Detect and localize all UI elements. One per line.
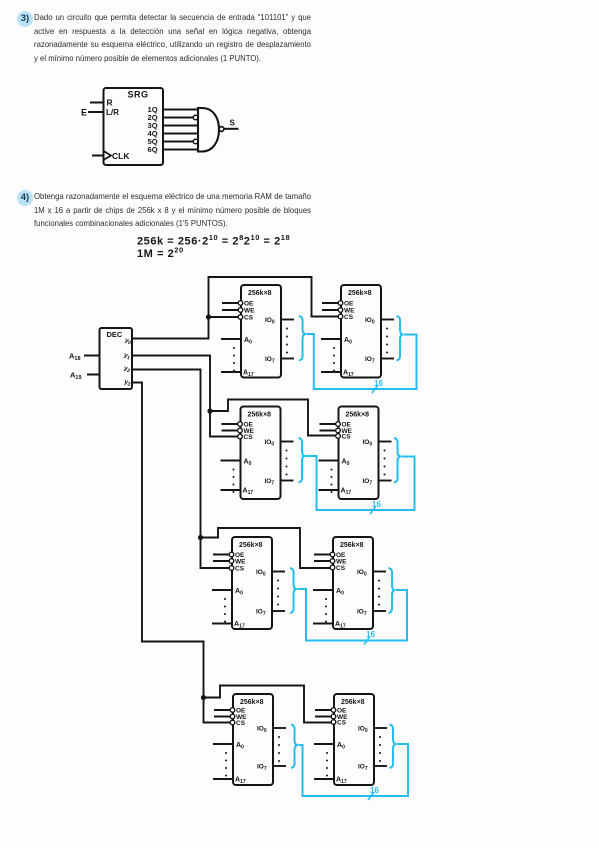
- wire U6 IO0: [373, 571, 386, 573]
- ellipsis dots U3 address pins: [233, 469, 235, 494]
- pin bubble U1 OE: [238, 301, 243, 306]
- svg-text:S: S: [230, 119, 236, 128]
- data brace row2 right (8 bits): [394, 438, 401, 483]
- pin label U7 IO0: [257, 726, 267, 735]
- RAM chip U6 256kx8: [333, 537, 373, 629]
- label A18: [69, 352, 81, 363]
- wire U5 A0 stub: [212, 589, 232, 591]
- RAM chip U2 256kx8: [341, 285, 381, 378]
- wire input A18: [84, 355, 100, 357]
- RAM chip U4 256kx8: [339, 407, 379, 500]
- pin label U8 A0: [337, 742, 345, 751]
- wire U3 IO0: [281, 441, 294, 443]
- pin bubble U3 WE: [238, 428, 243, 433]
- label SRG: [128, 90, 149, 100]
- RAM chip U7 256kx8: [233, 694, 273, 785]
- pin label U8 CS: [337, 720, 347, 727]
- data brace row4 left (8 bits): [291, 725, 298, 769]
- wire U1 A0 stub: [221, 338, 241, 340]
- svg-text:A0: A0: [236, 742, 244, 751]
- wire U4 A17 stub: [319, 489, 339, 491]
- wire U5 IO0: [272, 571, 285, 573]
- wire U3 IO7: [281, 480, 294, 482]
- svg-text:256k×8: 256k×8: [239, 542, 263, 549]
- problem 4 statement: [34, 190, 311, 231]
- svg-text:CLK: CLK: [112, 151, 130, 161]
- svg-text:A0: A0: [337, 742, 345, 751]
- wire U8 WE stub: [315, 716, 332, 718]
- wire U1 WE stub: [222, 309, 239, 311]
- wire input A19: [87, 374, 100, 376]
- wire U5 WE stub: [213, 560, 230, 562]
- pin bubble U5 OE: [229, 552, 234, 557]
- pin label 2Q: [148, 113, 158, 122]
- pin label U4 WE: [342, 428, 353, 435]
- problem 4 marker: [17, 190, 33, 206]
- ellipsis dots U2 IO pins: [386, 328, 388, 354]
- data brace row1 right (8 bits): [397, 316, 404, 361]
- svg-text:IO0: IO0: [257, 726, 267, 735]
- junction node row1: [206, 314, 211, 319]
- svg-text:CS: CS: [236, 720, 246, 727]
- svg-text:E: E: [81, 108, 87, 118]
- wire output 6Q: [163, 149, 198, 151]
- pin label U8 OE: [337, 708, 347, 715]
- ellipsis dots U4 address pins: [331, 469, 333, 494]
- pin label U5 CS: [235, 566, 245, 573]
- pin label U5 IO0: [256, 569, 266, 578]
- wire U4 IO0: [379, 441, 392, 443]
- pin label Y2: [123, 365, 132, 375]
- wire U3 A0 stub: [221, 460, 241, 462]
- label U2 256kx8: [348, 290, 372, 297]
- pin bubble U6 CS: [330, 565, 335, 570]
- svg-text:IO7: IO7: [257, 764, 267, 773]
- ellipsis dots U8 address pins: [326, 752, 328, 777]
- svg-text:IO7: IO7: [365, 356, 375, 365]
- bus width label 16 row1: [372, 379, 383, 393]
- svg-text:16: 16: [370, 786, 379, 795]
- wire output 5Q: [163, 141, 193, 143]
- svg-text:16: 16: [372, 500, 381, 509]
- shift register U1 (SRG): [104, 88, 164, 165]
- svg-text:256k×8: 256k×8: [248, 290, 272, 297]
- wire output 4Q: [163, 133, 198, 135]
- svg-text:IO7: IO7: [265, 356, 275, 365]
- pin label U2 IO7: [365, 356, 375, 365]
- label U7 256kx8: [240, 699, 264, 706]
- wire U4 WE stub: [320, 430, 337, 432]
- data brace row1 left (8 bits): [299, 316, 306, 361]
- svg-text:CS: CS: [244, 315, 254, 322]
- svg-text:6Q: 6Q: [148, 145, 158, 154]
- pin label U3 CS: [244, 434, 254, 441]
- svg-text:IO0: IO0: [265, 317, 275, 326]
- pin label U5 WE: [235, 559, 246, 566]
- RAM chip U3 256kx8: [241, 407, 281, 500]
- pin label U2 A0: [344, 337, 352, 346]
- wire U5 A17 stub: [212, 623, 232, 625]
- pin bubble U4 OE: [336, 422, 341, 427]
- pin label U4 IO7: [363, 478, 373, 487]
- svg-text:IO7: IO7: [363, 478, 373, 487]
- label DEC: [107, 330, 123, 339]
- svg-text:SRG: SRG: [128, 90, 149, 100]
- ellipsis dots U8 IO pins: [379, 736, 381, 762]
- svg-text:DEC: DEC: [107, 330, 123, 339]
- pin label 1Q: [148, 105, 158, 114]
- wire U1 OE stub: [222, 302, 239, 304]
- pin label U2 A17: [343, 370, 354, 379]
- pin label U4 A17: [341, 488, 352, 497]
- ellipsis dots U6 address pins: [325, 598, 327, 623]
- pin bubble U6 OE: [330, 552, 335, 557]
- pin label U2 WE: [344, 308, 355, 315]
- ellipsis dots U2 address pins: [333, 347, 335, 372]
- svg-text:L/R: L/R: [106, 108, 119, 117]
- pin label U8 A17: [336, 777, 347, 786]
- pin bubble U7 WE: [230, 714, 235, 719]
- svg-text:A0: A0: [342, 459, 350, 468]
- problem 3 marker: [17, 11, 33, 27]
- wire U4 IO7: [379, 480, 392, 482]
- pin label Y3: [123, 378, 132, 388]
- wire Y0 to row1 CS net: [132, 277, 341, 339]
- pin label U3 A17: [243, 488, 254, 497]
- pin label U3 IO7: [265, 478, 275, 487]
- svg-text:16: 16: [366, 630, 375, 639]
- svg-text:A0: A0: [244, 337, 252, 346]
- wire U8 A17 stub: [314, 778, 334, 780]
- pin label 6Q: [148, 145, 158, 154]
- wire Y1 to row2 CS net: [132, 356, 339, 437]
- wire U2 WE stub: [322, 309, 339, 311]
- junction node row2: [207, 408, 212, 413]
- pin label U7 WE: [236, 714, 247, 721]
- wire U4 A0 stub: [319, 460, 339, 462]
- inverting input bubble 5Q: [193, 139, 198, 144]
- pin label R: [107, 98, 113, 108]
- svg-text:IO7: IO7: [256, 609, 266, 618]
- pin label U2 IO0: [365, 317, 375, 326]
- svg-text:16: 16: [374, 379, 383, 388]
- handwritten formula 256k: [137, 233, 290, 248]
- wire U6 OE stub: [314, 554, 331, 556]
- problem 3 statement: [34, 11, 311, 65]
- decoder DEC: [100, 328, 133, 389]
- pin bubble U5 CS: [229, 566, 234, 571]
- RAM chip U8 256kx8: [334, 694, 374, 785]
- output bubble: [219, 127, 224, 132]
- ellipsis dots U7 address pins: [225, 752, 227, 777]
- svg-text:CS: CS: [337, 720, 347, 727]
- pin label U1 WE: [244, 308, 255, 315]
- svg-text:A0: A0: [244, 459, 252, 468]
- wire U4 OE stub: [320, 423, 337, 425]
- pin label U7 CS: [236, 720, 246, 727]
- label U6 256kx8: [340, 542, 364, 549]
- svg-text:y2: y2: [123, 365, 132, 375]
- wire input CLK: [92, 155, 104, 157]
- label S: [230, 119, 236, 128]
- wire U7 IO0: [273, 727, 286, 729]
- svg-text:CS: CS: [244, 434, 254, 441]
- wire U1 IO7: [281, 358, 294, 360]
- pin bubble U2 WE: [338, 308, 343, 313]
- wire U6 A17 stub: [313, 623, 333, 625]
- label U8 256kx8: [341, 699, 365, 706]
- pin label U4 IO0: [363, 439, 373, 448]
- ellipsis dots U5 IO pins: [277, 580, 279, 606]
- pin label U5 A0: [235, 588, 243, 597]
- svg-text:256k×8: 256k×8: [240, 699, 264, 706]
- pin label U3 OE: [244, 422, 254, 429]
- data brace row3 left (8 bits): [290, 568, 297, 613]
- wire U2 IO7: [381, 358, 394, 360]
- pin label U7 IO7: [257, 764, 267, 773]
- pin label U4 CS: [342, 434, 352, 441]
- pin label U8 WE: [337, 714, 348, 721]
- svg-text:256k×8: 256k×8: [341, 699, 365, 706]
- RAM chip U5 256kx8: [232, 537, 272, 629]
- svg-text:IO0: IO0: [256, 569, 266, 578]
- pin label U3 WE: [244, 428, 255, 435]
- pin label U5 IO7: [256, 609, 266, 618]
- bus width label 16 row4: [368, 786, 379, 800]
- wire U8 IO0: [374, 727, 387, 729]
- wire U3 OE stub: [222, 423, 239, 425]
- svg-text:IO7: IO7: [358, 764, 368, 773]
- pin label U2 OE: [344, 301, 354, 308]
- wire output S: [224, 128, 239, 130]
- pin label U7 A17: [235, 777, 246, 786]
- svg-text:A17: A17: [341, 488, 352, 497]
- svg-text:A0: A0: [336, 588, 344, 597]
- ellipsis dots U3 IO pins: [286, 450, 288, 476]
- pin label U1 OE: [244, 301, 254, 308]
- pin bubble U6 WE: [330, 559, 335, 564]
- wire output 3Q: [163, 125, 198, 127]
- svg-text:A17: A17: [336, 777, 347, 786]
- wire U1 IO0: [281, 319, 294, 321]
- ellipsis dots U1 address pins: [233, 347, 235, 372]
- svg-text:y1: y1: [123, 352, 132, 362]
- data brace row2 left (8 bits): [299, 438, 306, 483]
- pin bubble U3 OE: [238, 422, 243, 427]
- pin bubble U5 WE: [229, 559, 234, 564]
- svg-text:256k×8: 256k×8: [340, 542, 364, 549]
- wire U7 WE stub: [214, 716, 231, 718]
- svg-text:R: R: [107, 98, 113, 108]
- wire Y2 to row3 CS net: [132, 370, 333, 569]
- svg-text:256k×8: 256k×8: [346, 412, 370, 419]
- wire U8 OE stub: [315, 709, 332, 711]
- ellipsis dots U6 IO pins: [378, 580, 380, 606]
- svg-text:OE: OE: [344, 301, 354, 308]
- pin bubble U2 OE: [338, 301, 343, 306]
- pin label Y0: [124, 337, 133, 347]
- svg-text:IO0: IO0: [358, 726, 368, 735]
- svg-text:256k×8: 256k×8: [348, 290, 372, 297]
- wire input R: [90, 102, 104, 104]
- wire U2 A0 stub: [321, 338, 341, 340]
- wire U6 A0 stub: [313, 589, 333, 591]
- svg-text:256k = 256·210 = 28210 = 218: 256k = 256·210 = 28210 = 218: [137, 233, 290, 248]
- pin label 3Q: [148, 121, 158, 130]
- label U5 256kx8: [239, 542, 263, 549]
- ellipsis dots U5 address pins: [224, 598, 226, 623]
- svg-text:y3: y3: [123, 378, 132, 388]
- wire U7 A0 stub: [213, 743, 233, 745]
- ellipsis dots U1 IO pins: [286, 328, 288, 354]
- pin label U3 IO0: [265, 439, 275, 448]
- pin label U1 IO0: [265, 317, 275, 326]
- wire U7 IO7: [273, 765, 286, 767]
- pin label U1 CS: [244, 315, 254, 322]
- pin label U7 OE: [236, 708, 246, 715]
- pin bubble U7 OE: [230, 708, 235, 713]
- data bus wire row2 (16 bits): [306, 456, 415, 510]
- pin bubble U4 CS: [336, 434, 341, 439]
- svg-text:256k×8: 256k×8: [248, 412, 272, 419]
- inverting input bubble 2Q: [193, 115, 198, 120]
- wire U3 A17 stub: [221, 489, 241, 491]
- svg-text:A17: A17: [235, 777, 246, 786]
- svg-text:CS: CS: [235, 566, 245, 573]
- svg-text:CS: CS: [344, 314, 354, 321]
- wire U2 A17 stub: [321, 371, 341, 373]
- label E: [81, 108, 87, 118]
- pin label U4 A0: [342, 459, 350, 468]
- junction node row3: [198, 535, 203, 540]
- svg-text:CS: CS: [336, 565, 346, 572]
- wire input E: [88, 111, 104, 113]
- pin bubble U1 WE: [238, 308, 243, 313]
- wire U5 IO7: [272, 610, 285, 612]
- wire U2 OE stub: [322, 302, 339, 304]
- svg-text:CS: CS: [342, 434, 352, 441]
- wire U2 IO0: [381, 319, 394, 321]
- svg-text:IO0: IO0: [365, 317, 375, 326]
- pin label Y1: [123, 352, 132, 362]
- data bus wire row4 (16 bits): [299, 744, 409, 796]
- pin label U6 IO7: [357, 609, 367, 618]
- pin label U1 IO7: [265, 356, 275, 365]
- junction node row4: [201, 695, 206, 700]
- pin label U3 A0: [244, 459, 252, 468]
- wire U7 A17 stub: [213, 778, 233, 780]
- pin bubble U4 WE: [336, 428, 341, 433]
- pin label U8 IO0: [358, 726, 368, 735]
- pin label U2 CS: [344, 314, 354, 321]
- label U4 256kx8: [346, 412, 370, 419]
- pin bubble U8 CS: [331, 720, 336, 725]
- data brace row4 right (8 bits): [390, 725, 397, 769]
- svg-text:A0: A0: [344, 337, 352, 346]
- pin bubble U7 CS: [230, 720, 235, 725]
- bus width label 16 row2: [370, 500, 381, 514]
- svg-text:WE: WE: [244, 308, 255, 315]
- wire U5 OE stub: [213, 554, 230, 556]
- svg-text:IO7: IO7: [357, 609, 367, 618]
- svg-text:IO0: IO0: [265, 439, 275, 448]
- svg-text:A19: A19: [70, 371, 82, 382]
- pin label 5Q: [148, 137, 158, 146]
- pin bubble U1 CS: [238, 315, 243, 320]
- pin label U6 CS: [336, 565, 346, 572]
- pin label U5 A17: [234, 621, 245, 630]
- pin label U6 A0: [336, 588, 344, 597]
- pin bubble U8 OE: [331, 708, 336, 713]
- svg-text:A17: A17: [243, 488, 254, 497]
- NAND gate U2: [198, 108, 219, 152]
- svg-text:WE: WE: [235, 559, 246, 566]
- RAM chip U1 256kx8: [241, 285, 281, 378]
- svg-text:IO7: IO7: [265, 478, 275, 487]
- pin label U1 A17: [243, 370, 254, 379]
- wire U8 IO7: [374, 765, 387, 767]
- wire U6 IO7: [373, 610, 386, 612]
- wire output 1Q: [163, 109, 198, 111]
- pin label U6 WE: [336, 559, 347, 566]
- svg-text:IO0: IO0: [363, 439, 373, 448]
- wire U1 A17 stub: [221, 371, 241, 373]
- pin bubble U8 WE: [331, 714, 336, 719]
- clock triangle: [104, 151, 112, 160]
- label U3 256kx8: [248, 412, 272, 419]
- pin label U4 OE: [342, 422, 352, 429]
- ellipsis dots U4 IO pins: [384, 450, 386, 476]
- data bus wire row3 (16 bits): [298, 589, 408, 641]
- label A19: [70, 371, 82, 382]
- pin label U7 A0: [236, 742, 244, 751]
- pin label 4Q: [148, 129, 158, 138]
- bus width label 16 row3: [364, 630, 375, 645]
- svg-text:1M = 220: 1M = 220: [137, 246, 184, 261]
- ellipsis dots U7 IO pins: [278, 736, 280, 762]
- pin label U5 OE: [235, 552, 245, 559]
- pin label U1 A0: [244, 337, 252, 346]
- pin label L/R: [106, 108, 119, 117]
- handwritten formula 1M: [137, 246, 184, 261]
- svg-text:A0: A0: [235, 588, 243, 597]
- svg-text:A18: A18: [69, 352, 81, 363]
- pin label U6 A17: [335, 621, 346, 630]
- wire U6 WE stub: [314, 560, 331, 562]
- wire U3 WE stub: [222, 430, 239, 432]
- pin label U6 IO0: [357, 569, 367, 578]
- label U1 256kx8: [248, 290, 272, 297]
- pin bubble U2 CS: [338, 314, 343, 319]
- wire output 2Q: [163, 117, 193, 119]
- pin label U6 OE: [336, 552, 346, 559]
- pin label CLK: [112, 151, 130, 161]
- pin bubble U3 CS: [238, 434, 243, 439]
- wire Y3 to row4 CS net: [132, 383, 334, 723]
- svg-text:OE: OE: [244, 301, 254, 308]
- svg-text:IO0: IO0: [357, 569, 367, 578]
- wire U7 OE stub: [214, 709, 231, 711]
- wire U8 A0 stub: [314, 743, 334, 745]
- data brace row3 right (8 bits): [389, 568, 396, 613]
- pin label U8 IO7: [358, 764, 368, 773]
- data bus wire row1 (16 bits): [307, 334, 417, 389]
